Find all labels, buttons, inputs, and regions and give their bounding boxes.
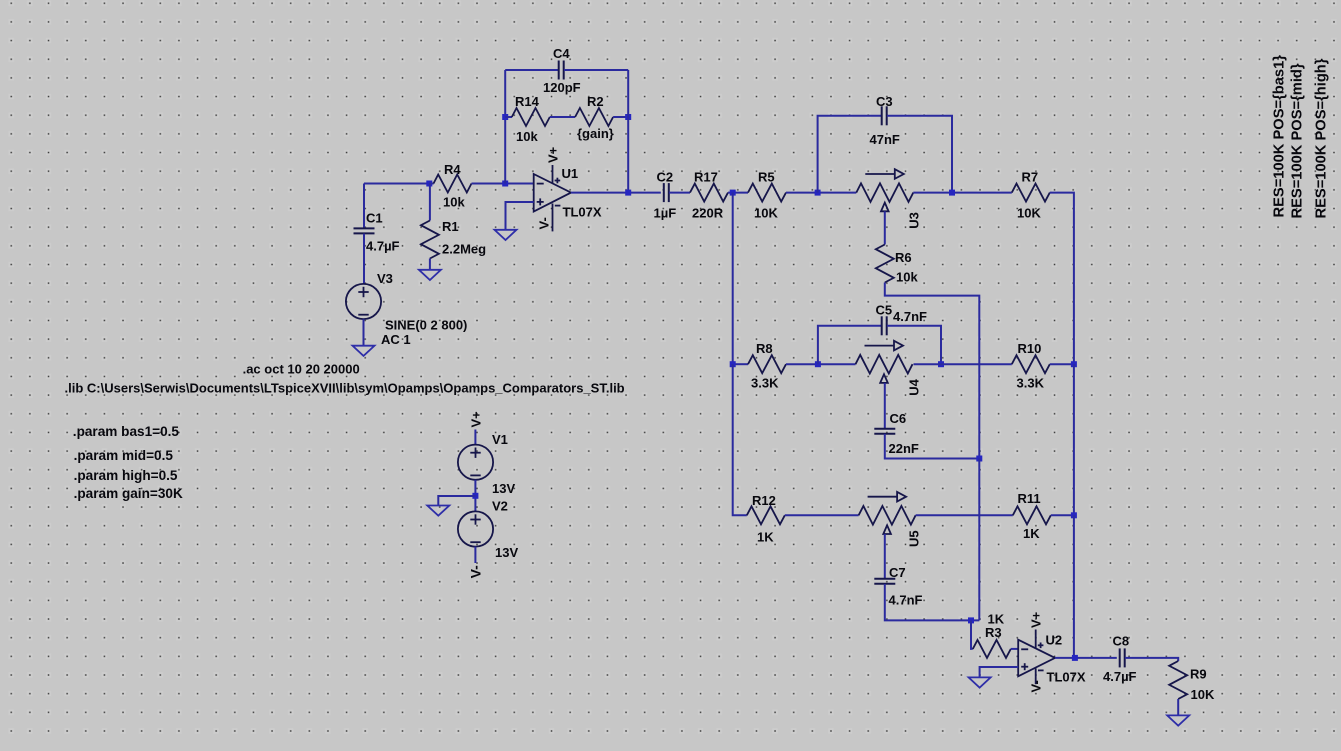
value AC 1 of V3 (381, 332, 411, 347)
resistor R2 (575, 108, 613, 126)
op-amp U2 V+ pin mark (1038, 643, 1044, 649)
label C2 (657, 170, 674, 185)
wire C4 top left (505, 69, 558, 71)
svg-text:4.7nF: 4.7nF (893, 309, 927, 324)
svg-text:V-: V- (1029, 680, 1044, 692)
op-amp U1 V- label (537, 217, 552, 229)
svg-text:10K: 10K (1191, 687, 1215, 702)
svg-text:V-: V- (537, 217, 552, 229)
wire C1 to V3 (363, 234, 365, 285)
label C5 (876, 303, 893, 318)
wire supply ground branch (438, 496, 475, 506)
label R11 (1018, 491, 1041, 506)
svg-text:U3: U3 (907, 212, 922, 229)
resistor R9 (1169, 661, 1187, 699)
label V1 (492, 432, 508, 447)
op-amp U1 non-inverting pin mark (537, 198, 544, 205)
value 22nF of C6 (889, 441, 919, 456)
wire to R14 (505, 116, 512, 118)
wire C5 left vertical (818, 326, 882, 364)
resistor R3 (973, 640, 1011, 658)
value 1uF of C2 (654, 206, 677, 221)
wire junction (502, 114, 508, 120)
value 4.7nF of C5 (893, 309, 927, 324)
capacitor C8 (1120, 648, 1125, 667)
value 10k of R14 (516, 129, 538, 144)
value TL07X of U2 (1047, 670, 1086, 685)
directive .param high (74, 468, 178, 483)
label C3 (876, 94, 893, 109)
svg-text:R2: R2 (587, 94, 604, 109)
svg-text:4.7µF: 4.7µF (1103, 669, 1137, 684)
wire R12 to U5 (785, 514, 859, 516)
voltage source V2 (458, 511, 493, 546)
resistor R8 (748, 355, 786, 373)
wire junction (426, 181, 432, 187)
directive .ac (243, 362, 360, 377)
op-amp U2 non-inverting pin mark (1021, 663, 1028, 670)
svg-text:R8: R8 (756, 341, 773, 356)
resistor R7 (1012, 184, 1050, 202)
label R8 (756, 341, 773, 356)
wire U5 wiper to C7 (884, 534, 886, 578)
wire V1 to V2 (474, 480, 476, 512)
wire R1 to ground (429, 259, 431, 270)
wire junction (472, 493, 478, 499)
wire C2 to R17 (669, 192, 690, 194)
svg-text:220R: 220R (692, 206, 724, 221)
wire input node to R4 (364, 183, 429, 185)
svg-text:U4: U4 (907, 378, 922, 395)
svg-text:V2: V2 (492, 499, 508, 514)
svg-text:120pF: 120pF (543, 80, 581, 95)
wire junction (730, 190, 736, 196)
svg-text:C5: C5 (876, 303, 893, 318)
svg-text:C7: C7 (889, 565, 906, 580)
svg-text:C3: C3 (876, 94, 893, 109)
wire junction (625, 190, 631, 196)
capacitor C2 (664, 183, 669, 202)
svg-text:10k: 10k (443, 195, 465, 210)
potentiometer U5 (859, 492, 916, 534)
svg-text:1K: 1K (757, 530, 774, 545)
value 2.2Meg of R1 (442, 242, 486, 257)
wire R11 to right bus (1051, 514, 1074, 516)
capacitor C6 (874, 429, 895, 434)
wire junction (1071, 361, 1077, 367)
svg-text:C8: C8 (1113, 634, 1130, 649)
svg-text:R14: R14 (515, 94, 540, 109)
wire junction (968, 617, 974, 623)
label C1 (366, 211, 383, 226)
svg-text:R9: R9 (1190, 667, 1207, 682)
wire to R4 (429, 183, 433, 185)
wire C3 right vertical (887, 116, 952, 193)
wire right bus mid (1073, 364, 1075, 515)
label V2 (492, 499, 508, 514)
svg-text:22nF: 22nF (889, 441, 919, 456)
directive .param bas1 (73, 424, 180, 439)
svg-text:1K: 1K (1023, 526, 1040, 541)
wire R5 to U3 (786, 192, 856, 194)
resistor R10 (1012, 355, 1050, 373)
value 4.7uF of C1 (366, 239, 400, 254)
svg-text:V1: V1 (492, 432, 508, 447)
value 3.3K of R10 (1017, 376, 1045, 391)
op-amp U2 V- label (1029, 680, 1044, 692)
label R9 (1190, 667, 1207, 682)
svg-text:RES=100K POS={mid}: RES=100K POS={mid} (1290, 63, 1306, 218)
wire bus to R8 (733, 363, 748, 365)
svg-text:R4: R4 (444, 162, 461, 177)
wire C5 right vertical (887, 326, 941, 364)
op-amp U1 V+ pin mark (555, 178, 561, 184)
wire U5 to R11 (916, 514, 1013, 516)
op-amp U1 V- pin mark (555, 205, 561, 207)
wire junction (815, 361, 821, 367)
svg-text:R3: R3 (985, 625, 1002, 640)
wire junction (938, 361, 944, 367)
svg-text:4.7nF: 4.7nF (889, 593, 923, 608)
wire junction to R3 (971, 620, 973, 649)
directive .param mid (74, 448, 174, 463)
capacitor C5 (882, 316, 887, 335)
value SINE of V3 (385, 318, 467, 333)
resistor R17 (690, 184, 728, 202)
label R4 (444, 162, 461, 177)
wire U4 wiper to C6 (884, 383, 886, 428)
wire C3 left vertical (818, 116, 882, 193)
value 220R of R17 (692, 206, 724, 221)
potentiometer U4 (856, 341, 913, 383)
wire junction (502, 181, 508, 187)
wire U2 output (1055, 657, 1117, 659)
svg-text:13V: 13V (495, 545, 518, 560)
label V3 (377, 271, 393, 286)
op-amp U2 V- stub (1035, 668, 1037, 684)
svg-text:U1: U1 (562, 166, 579, 181)
op-amp U1 V+ stub (552, 165, 554, 183)
label R10 (1018, 341, 1042, 356)
ground under V3 (353, 346, 375, 356)
wire R6 to mid bus (885, 283, 980, 459)
wire R2 to right vertical (613, 116, 628, 118)
op-amp U2 inverting pin mark (1021, 648, 1028, 650)
svg-text:V+: V+ (1029, 611, 1044, 628)
svg-text:R7: R7 (1022, 170, 1039, 185)
wire mid bus down (978, 459, 980, 621)
svg-text:V+: V+ (546, 146, 561, 163)
svg-text:.param mid=0.5: .param mid=0.5 (74, 448, 174, 463)
comment RES mid (1290, 63, 1306, 218)
svg-text:U5: U5 (907, 530, 922, 547)
net flag V- below V2 (467, 565, 483, 579)
svg-text:R17: R17 (694, 170, 718, 185)
op-amp U2 V- pin mark (1038, 669, 1044, 671)
svg-text:R12: R12 (752, 493, 776, 508)
wire feedback right vertical (627, 70, 629, 193)
wire R14 to R2 (550, 116, 575, 118)
wire V3 to ground (363, 319, 365, 346)
svg-text:47nF: 47nF (870, 132, 900, 147)
ground under R9 (1167, 715, 1189, 725)
wire R9 to ground (1177, 699, 1179, 715)
svg-text:C4: C4 (553, 46, 570, 61)
svg-text:.param high=0.5: .param high=0.5 (74, 468, 178, 483)
value 120pF of C4 (543, 80, 581, 95)
value 4.7nF of C7 (889, 593, 923, 608)
svg-text:.param bas1=0.5: .param bas1=0.5 (73, 424, 180, 439)
ground of supplies (427, 506, 449, 516)
wire feedback left vertical (504, 70, 506, 184)
label R2 (587, 94, 604, 109)
label U4 (907, 378, 922, 395)
capacitor C7 (874, 579, 895, 584)
svg-text:AC 1: AC 1 (381, 332, 411, 347)
label R7 (1022, 170, 1039, 185)
svg-text:RES=100K POS={high}: RES=100K POS={high} (1314, 58, 1330, 218)
wire junction (1071, 512, 1077, 518)
label C7 (889, 565, 906, 580)
directive .param gain (74, 486, 183, 501)
label C4 (553, 46, 570, 61)
op-amp U1 inverting pin mark (537, 183, 544, 185)
wire U4 to R10 (914, 363, 1012, 365)
wire left bus low (733, 364, 747, 515)
value 47nF of C3 (870, 132, 900, 147)
wire right bus low (1073, 515, 1075, 658)
wire R4 to U1 inverting input (472, 183, 534, 185)
svg-text:.lib C:\Users\Serwis\Documents: .lib C:\Users\Serwis\Documents\LTspiceXV… (65, 381, 625, 396)
svg-text:TL07X: TL07X (1047, 670, 1086, 685)
net flag V+ above V1 (468, 411, 483, 428)
svg-text:SINE(0 2 800): SINE(0 2 800) (385, 318, 467, 333)
op-amp U1 V- stub (552, 204, 554, 232)
svg-text:3.3K: 3.3K (1017, 376, 1045, 391)
wire junction (815, 190, 821, 196)
capacitor C4 (559, 61, 564, 80)
ground under U1 input (495, 230, 517, 240)
wire U3 to R7 row (913, 192, 1012, 194)
label R1 (442, 219, 459, 234)
label U1 (562, 166, 579, 181)
wire junction (976, 456, 982, 462)
op-amp U1 body (534, 174, 571, 212)
wire C4 top right (564, 69, 628, 71)
wire junction (1072, 655, 1078, 661)
wire node to R1 (429, 184, 431, 221)
wire R17 to R5 (728, 192, 748, 194)
label R14 (515, 94, 540, 109)
value 10k of R6 (896, 270, 918, 285)
wire U1 output (571, 192, 661, 194)
svg-text:V-: V- (467, 565, 483, 579)
value 10k of R4 (443, 195, 465, 210)
svg-text:C1: C1 (366, 211, 383, 226)
wire C6 to bus (885, 434, 980, 459)
svg-text:V3: V3 (377, 271, 393, 286)
value 10K of R5 (754, 206, 778, 221)
svg-text:R1: R1 (442, 219, 459, 234)
value 3.3K of R8 (751, 376, 779, 391)
svg-text:2.2Meg: 2.2Meg (442, 242, 486, 257)
label R3 (985, 625, 1002, 640)
resistor R14 (512, 108, 550, 126)
svg-text:R5: R5 (758, 170, 775, 185)
svg-text:13V: 13V (492, 481, 515, 496)
wire V+ flag to V1 (474, 430, 476, 445)
svg-text:10k: 10k (516, 129, 538, 144)
wire R10 to right bus (1050, 363, 1074, 365)
svg-text:10K: 10K (1017, 206, 1041, 221)
svg-text:10K: 10K (754, 206, 778, 221)
wire R8 to U4 (786, 363, 856, 365)
svg-text:RES=100K POS={bas1}: RES=100K POS={bas1} (1272, 55, 1288, 218)
resistor R11 (1013, 506, 1051, 524)
wire junction (625, 114, 631, 120)
svg-text:10k: 10k (896, 270, 918, 285)
label U5 (907, 530, 922, 547)
value TL07X of U1 (563, 205, 602, 220)
svg-text:4.7µF: 4.7µF (366, 239, 400, 254)
svg-text:R11: R11 (1018, 491, 1041, 506)
wire C8 to R9 (1125, 658, 1178, 661)
resistor R4 (434, 175, 472, 193)
value 13V of V1 (492, 481, 515, 496)
value 4.7uF of C8 (1103, 669, 1137, 684)
comment RES bas1 (1272, 55, 1288, 218)
voltage source V3 (346, 284, 381, 319)
svg-text:C2: C2 (657, 170, 674, 185)
wire R7 to right bus (1050, 193, 1074, 365)
value 10K of R9 (1191, 687, 1215, 702)
svg-text:.param gain=30K: .param gain=30K (74, 486, 183, 501)
op-amp U2 body (1018, 640, 1055, 677)
voltage source V1 (458, 445, 493, 480)
value 1K of R12 (757, 530, 774, 545)
resistor R1 (421, 221, 439, 259)
label C6 (890, 411, 907, 426)
value 10K of R7 (1017, 206, 1041, 221)
op-amp U2 V+ label (1029, 611, 1044, 628)
label R12 (752, 493, 776, 508)
op-amp U2 V+ stub (1035, 630, 1037, 649)
label R6 (895, 250, 912, 265)
directive .lib (65, 381, 625, 396)
comment RES high (1314, 58, 1330, 218)
wire R3 to U2 (1011, 648, 1018, 650)
svg-text:R6: R6 (895, 250, 912, 265)
svg-text:TL07X: TL07X (563, 205, 602, 220)
svg-text:V+: V+ (468, 411, 483, 428)
svg-text:{gain}: {gain} (577, 126, 614, 141)
svg-text:3.3K: 3.3K (751, 376, 779, 391)
label R5 (758, 170, 775, 185)
ground under U2 input (969, 677, 991, 687)
value 1K of R3 (988, 612, 1005, 627)
resistor R6 (876, 245, 894, 283)
op-amp U1 V+ label (546, 146, 561, 163)
capacitor C1 (354, 228, 375, 233)
wire junction (730, 361, 736, 367)
label R17 (694, 170, 718, 185)
resistor R5 (748, 184, 786, 202)
wire U2 non-inverting input (980, 667, 1019, 677)
ground under R1 (419, 270, 441, 280)
capacitor C3 (882, 106, 887, 125)
svg-text:1µF: 1µF (654, 206, 677, 221)
svg-text:C6: C6 (890, 411, 907, 426)
label U3 (907, 212, 922, 229)
wire junction (949, 190, 955, 196)
label U2 (1046, 633, 1063, 648)
svg-text:U2: U2 (1046, 633, 1063, 648)
label C8 (1113, 634, 1130, 649)
wire U1 non-inverting input (506, 202, 534, 230)
resistor R12 (747, 506, 785, 524)
wire V2 to V- flag (474, 547, 476, 563)
value 13V of V2 (495, 545, 518, 560)
value 1K of R11 (1023, 526, 1040, 541)
potentiometer U3 (856, 169, 913, 211)
svg-text:.ac oct 10 20 20000: .ac oct 10 20 20000 (243, 362, 360, 377)
wire C7 to junction (885, 584, 980, 620)
wire left bus (732, 193, 734, 365)
svg-text:R10: R10 (1018, 341, 1042, 356)
value gain of R2 (577, 126, 614, 141)
wire C1 top lead (363, 184, 365, 229)
wire U3 wiper to R6 (884, 211, 886, 244)
